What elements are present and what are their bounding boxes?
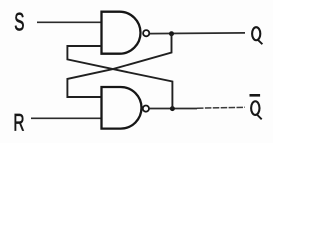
svg-text:S: S bbox=[14, 9, 24, 37]
output label Q bbox=[252, 27, 262, 44]
NAND gate U2 inversion bubble bbox=[143, 106, 149, 112]
wire R input bbox=[31, 117, 102, 119]
wire U2 output to Qbar bbox=[150, 108, 198, 110]
wire feedback Q to U2 input (vertical, diagonal, vertical, horizontal) bbox=[67, 34, 171, 97]
wire S input bbox=[37, 21, 102, 23]
NAND gate U1 (top) body bbox=[102, 12, 141, 54]
overline of Qbar bbox=[250, 94, 261, 97]
junction node Qbar bbox=[170, 106, 175, 111]
NAND gate U1 inversion bubble bbox=[143, 30, 149, 36]
wire U1 output to Q bbox=[150, 32, 245, 35]
svg-text:R: R bbox=[13, 109, 24, 137]
wire feedback Qbar to U1 input (vertical, diagonal, vertical, horizontal) bbox=[67, 46, 172, 109]
output label Qbar bbox=[251, 101, 262, 119]
NAND gate U2 (bottom) body bbox=[102, 87, 142, 129]
junction node Q bbox=[169, 31, 174, 36]
